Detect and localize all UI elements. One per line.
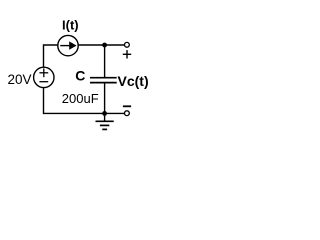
voltage source minus sign bbox=[39, 81, 48, 83]
current source arrow bbox=[60, 41, 76, 49]
wire: bottom rail (voltage source bottom to bottom-right terminal) bbox=[44, 88, 125, 114]
node: bottom junction bbox=[102, 111, 107, 116]
wire: current source right to top-right terminal bbox=[78, 44, 124, 46]
terminal: bottom-right open circle bbox=[125, 111, 130, 116]
node: top junction bbox=[102, 43, 107, 48]
svg-text:C: C bbox=[75, 68, 85, 84]
current source I1 (circle) bbox=[58, 35, 78, 55]
capacitor C1 plates bbox=[90, 78, 117, 83]
label - (bottom terminal polarity) bbox=[123, 105, 131, 107]
ground stub bbox=[104, 113, 106, 121]
svg-text:200uF: 200uF bbox=[62, 91, 99, 106]
terminal: top-right open circle bbox=[125, 42, 130, 47]
capacitor C1 top lead bbox=[104, 45, 106, 77]
capacitor C1 bottom lead bbox=[104, 83, 106, 113]
svg-text:Vc(t): Vc(t) bbox=[118, 73, 149, 89]
wire: top-left corner segment (voltage source top to current source left) bbox=[44, 45, 58, 67]
svg-text:20V: 20V bbox=[8, 72, 32, 87]
svg-text:I(t): I(t) bbox=[62, 18, 79, 33]
label + (top terminal polarity) bbox=[123, 50, 131, 58]
voltage source V1 (circle) bbox=[34, 67, 54, 87]
ground symbol bbox=[96, 121, 114, 129]
voltage source plus sign bbox=[39, 68, 48, 77]
